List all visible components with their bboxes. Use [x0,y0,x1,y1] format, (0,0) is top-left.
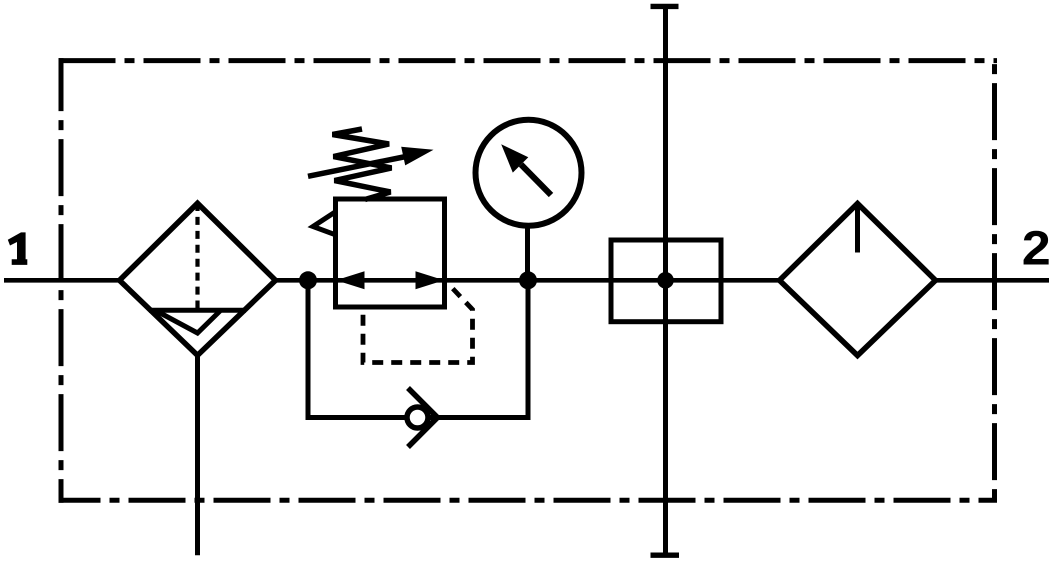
gauge G1 dial [476,120,582,226]
svg-text:2: 2 [1022,221,1051,275]
check valve ball [407,407,428,428]
filter F1 water trap V [157,311,221,333]
gauge stem wire [525,225,530,281]
enclosure border right edge (dash-dot) [992,58,997,503]
vertical mounting line through valve block [663,7,668,556]
port 1 label [8,232,28,265]
lubricator body (diamond) [780,204,936,356]
filter F1 body (diamond) [120,203,276,355]
pilot line (dashed) [363,284,473,363]
bottom T-bar [651,553,680,558]
regulator adjustment arrow shaft [308,157,406,177]
top T-bar [651,4,679,9]
regulator spring [333,129,392,200]
regulator left flow arrowhead [336,271,365,289]
junction node A [299,271,317,289]
gauge needle head [501,144,528,172]
bypass wire down from node A [306,280,311,417]
main flow line from port 1 to port 2 [4,278,1049,283]
drain line from filter [195,356,200,555]
filter F1 dashed centerline [195,203,199,309]
regulator vent triangle [313,212,336,235]
gauge needle shaft [521,165,551,196]
check valve seat [408,388,438,447]
regulator adjustment arrowhead [401,147,433,166]
filter F1 separator chord [149,308,246,313]
enclosure border top edge (dash-dot) [59,58,998,63]
junction node B [519,271,537,289]
enclosure border left edge (dash-dot) [59,58,64,503]
bypass wire bottom horizontal [306,415,529,420]
regulator R1 body [336,199,445,307]
lubricator drip stub [855,205,860,253]
enclosure border bottom edge (dash-dot) [59,498,998,503]
bypass wire up to node B [526,280,531,420]
junction node C [657,272,674,289]
shut-off valve block [611,240,721,322]
regulator right flow arrowhead [416,271,445,289]
